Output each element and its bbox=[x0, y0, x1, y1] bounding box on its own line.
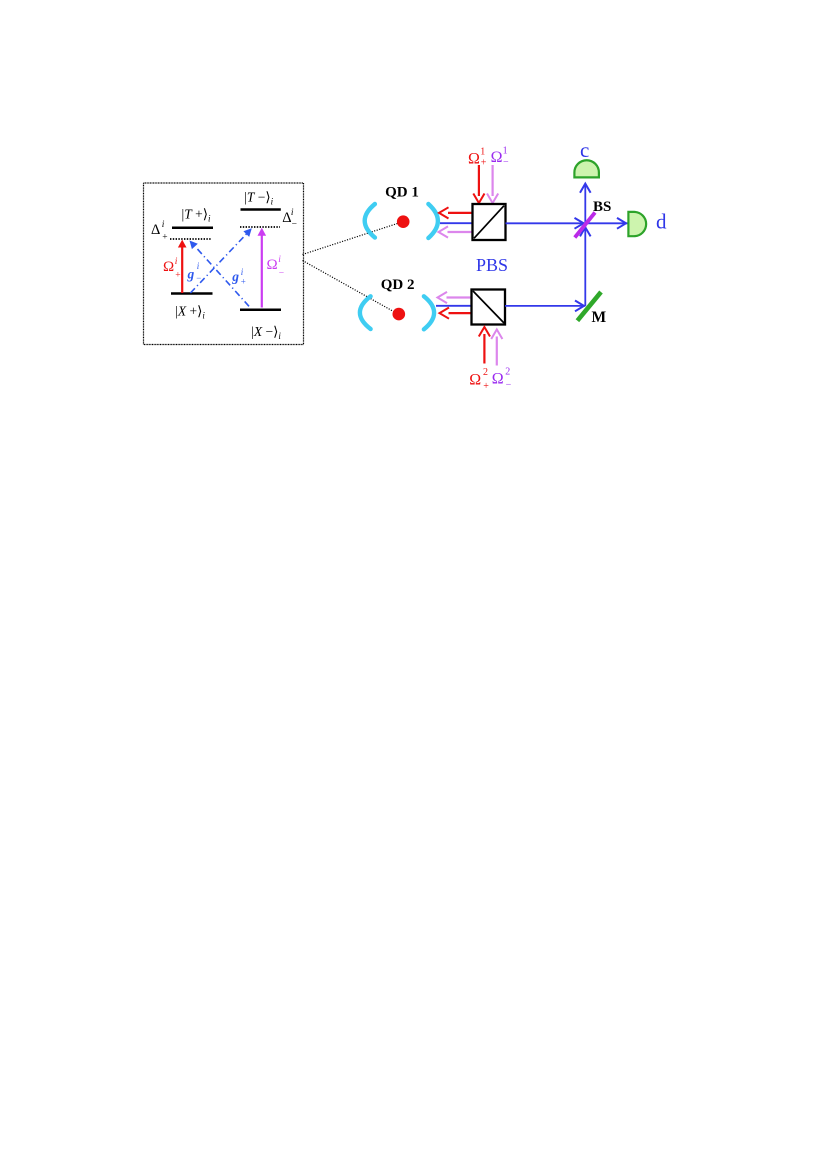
dotted link box to QD2 bbox=[303, 261, 395, 313]
svg-text:|T −⟩i: |T −⟩i bbox=[244, 189, 273, 206]
beam blue PBS2 to mirror M bbox=[505, 305, 585, 307]
svg-text:2: 2 bbox=[505, 367, 510, 378]
beam red PBS2 to QD2 bbox=[440, 308, 472, 319]
svg-text:+: + bbox=[162, 233, 167, 243]
detector d bbox=[628, 212, 646, 236]
beam blue QD1 to PBS1 bbox=[440, 222, 473, 224]
cavity QD2 left mirror arc bbox=[360, 296, 371, 329]
detuning dotted line D+ bbox=[170, 238, 211, 240]
svg-text:Δ: Δ bbox=[151, 222, 160, 238]
cavity QD1 right mirror arc bbox=[428, 204, 438, 238]
beam red PBS1 to QD1 bbox=[439, 207, 473, 218]
svg-text:i: i bbox=[278, 255, 281, 265]
pump arrow Omega+^i bbox=[178, 240, 187, 293]
svg-text:Ω: Ω bbox=[469, 371, 481, 388]
svg-text:g: g bbox=[231, 269, 239, 284]
beam violet PBS2 to QD2 bbox=[438, 292, 472, 303]
svg-text:1: 1 bbox=[503, 145, 508, 156]
label Omega+^2 bbox=[469, 367, 489, 392]
svg-text:i: i bbox=[291, 208, 294, 218]
dashed level-diagram box bbox=[144, 183, 304, 345]
PBS1 diagonal bbox=[474, 206, 504, 239]
svg-text:QD 1: QD 1 bbox=[385, 184, 419, 200]
arrowhead up into BS bbox=[580, 227, 591, 236]
svg-text:Ω: Ω bbox=[492, 370, 504, 387]
svg-text:i: i bbox=[241, 267, 244, 277]
label Omega-^1 bbox=[491, 145, 509, 168]
svg-text:+: + bbox=[241, 277, 246, 287]
svg-text:Ω: Ω bbox=[163, 259, 174, 275]
mirror M bbox=[577, 292, 601, 321]
cavity QD1 left mirror arc bbox=[365, 204, 375, 238]
coupling arrow g+^i (to upper-right) bbox=[190, 228, 251, 293]
arrowhead into detector d bbox=[617, 218, 626, 229]
beam splitter BS bbox=[575, 213, 595, 238]
label g-^i bbox=[187, 261, 202, 283]
label Delta+^i bbox=[151, 220, 168, 243]
svg-text:i: i bbox=[175, 257, 178, 267]
label Omega-^2 bbox=[492, 367, 512, 391]
svg-text:+: + bbox=[175, 271, 180, 281]
svg-text:PBS: PBS bbox=[476, 255, 508, 275]
svg-text:−: − bbox=[503, 157, 509, 168]
svg-text:i: i bbox=[197, 261, 200, 271]
coupling arrow g-^i (to upper-left) bbox=[190, 241, 250, 307]
svg-text:+: + bbox=[481, 158, 487, 169]
svg-text:Ω: Ω bbox=[468, 150, 480, 167]
arrowhead into M bbox=[575, 301, 584, 312]
beam violet PBS1 to QD1 bbox=[439, 226, 473, 237]
dotted link box to QD1 bbox=[303, 223, 400, 255]
detector c bbox=[574, 160, 599, 177]
label Omega+^1 bbox=[468, 146, 487, 168]
svg-text:−: − bbox=[292, 219, 297, 229]
svg-text:QD 2: QD 2 bbox=[381, 277, 415, 293]
pump beam Omega-^2 up into PBS2 bbox=[491, 330, 502, 366]
cavity QD2 right mirror arc bbox=[424, 296, 434, 329]
pump beam Omega+^1 down into PBS1 bbox=[473, 165, 484, 203]
svg-text:i: i bbox=[162, 220, 165, 230]
svg-text:BS: BS bbox=[593, 199, 611, 215]
level |X+>_i bbox=[171, 292, 213, 295]
svg-text:|T +⟩i: |T +⟩i bbox=[182, 207, 211, 224]
svg-text:2: 2 bbox=[483, 367, 488, 378]
beam blue M to BS to detector c bbox=[584, 184, 586, 306]
svg-text:M: M bbox=[592, 309, 607, 326]
label g+^i bbox=[231, 267, 245, 287]
svg-text:1: 1 bbox=[480, 146, 485, 157]
PBS2 cube bbox=[472, 290, 506, 325]
label Omega+^i bbox=[163, 257, 181, 281]
svg-text:Ω: Ω bbox=[491, 149, 503, 166]
pump beam Omega+^2 up into PBS2 bbox=[479, 327, 490, 364]
pump arrow Omega-^i bbox=[258, 228, 267, 308]
svg-text:−: − bbox=[506, 379, 512, 390]
level |T->_i bbox=[241, 208, 281, 211]
level |T+>_i bbox=[172, 226, 213, 229]
detuning dotted line D- bbox=[240, 226, 280, 228]
svg-text:d: d bbox=[656, 209, 667, 233]
PBS1 cube bbox=[473, 204, 506, 240]
svg-text:−: − bbox=[279, 269, 284, 279]
svg-text:Ω: Ω bbox=[267, 257, 278, 273]
svg-text:|X +⟩i: |X +⟩i bbox=[175, 304, 205, 321]
quantum dot QD1 bbox=[397, 215, 410, 228]
svg-text:g: g bbox=[187, 266, 195, 281]
label Omega-^i bbox=[267, 255, 285, 279]
svg-text:|X −⟩i: |X −⟩i bbox=[251, 324, 281, 341]
pump beam Omega-^1 down into PBS1 bbox=[487, 165, 498, 203]
svg-text:c: c bbox=[580, 138, 589, 162]
svg-text:+: + bbox=[483, 381, 489, 392]
PBS2 diagonal bbox=[473, 291, 504, 323]
level |X->_i bbox=[240, 308, 281, 311]
beam blue PBS1 to BS to detector d bbox=[506, 222, 628, 224]
beam blue QD2 to PBS2 bbox=[436, 305, 472, 307]
quantum dot QD2 bbox=[393, 308, 406, 321]
arrowhead into BS (right) bbox=[575, 218, 584, 229]
label Delta-^i bbox=[282, 208, 297, 230]
arrowhead up into detector c bbox=[580, 184, 591, 193]
